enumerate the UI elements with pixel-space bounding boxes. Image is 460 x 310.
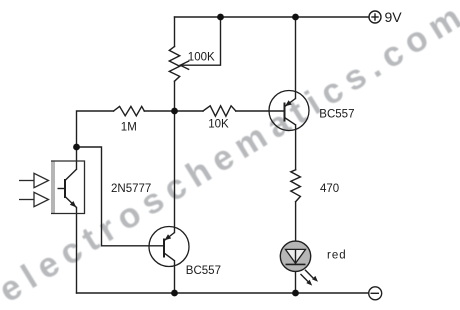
phototransistor emitter arrowhead — [70, 201, 77, 207]
terminal +9V — [369, 11, 381, 23]
wire 10K to Q2 base — [236, 110, 285, 112]
svg-text:1M: 1M — [121, 122, 137, 134]
resistor R2 1M body — [114, 106, 145, 115]
wire 1M to node — [144, 110, 203, 112]
Q1 emitter arrowhead — [165, 234, 172, 240]
LED emission arrow 2 — [305, 270, 318, 282]
wire 470 to LED — [295, 202, 297, 249]
junction node top wiper — [217, 14, 224, 21]
svg-text:BC557: BC557 — [319, 108, 354, 120]
light arrow 2 — [19, 192, 49, 206]
wire Q1 collector to rail — [174, 261, 176, 293]
LED D1 lead through — [295, 249, 297, 264]
wire Q2 emitter top — [295, 17, 297, 99]
transistor Q1 body — [164, 233, 175, 261]
potentiometer R1 100K body — [169, 47, 179, 82]
wire phototransistor collector — [76, 147, 78, 169]
wire 100K top lead — [174, 17, 176, 47]
junction node top Q2 — [292, 14, 299, 21]
phototransistor Q3 2N5777 symbol — [58, 169, 77, 207]
wire 100K bottom lead — [174, 81, 176, 111]
transistor Q2 body — [285, 99, 296, 125]
junction node bottom LED — [292, 290, 299, 297]
wire left node to Q1 base — [77, 147, 164, 246]
terminal minus — [369, 287, 382, 300]
LED emission arrow 1 — [301, 274, 313, 286]
junction node left — [73, 144, 80, 151]
svg-text:electroschematics.com: electroschematics.com — [0, 0, 460, 310]
wire 100K wiper — [182, 17, 221, 65]
light arrow 1 — [19, 173, 49, 187]
wire phototransistor emitter down — [76, 208, 78, 294]
optocoupler box outline — [51, 161, 85, 214]
optocoupler box gray left edge — [51, 161, 55, 214]
transistor Q1 BC557 circle — [149, 227, 189, 267]
Q2 emitter arrowhead — [285, 100, 292, 106]
LED D1 circle — [280, 241, 310, 271]
wire Q1 emitter top (from node) — [174, 111, 176, 233]
junction node bottom Q1 — [171, 290, 178, 297]
junction node middle — [171, 108, 178, 115]
svg-text:470: 470 — [320, 183, 339, 195]
LED D1 cathode bar — [286, 263, 306, 265]
wire bottom rail — [77, 292, 369, 294]
svg-text:9V: 9V — [385, 9, 403, 25]
resistor R3 10K body — [203, 106, 236, 116]
resistor R4 470 body — [291, 170, 301, 202]
svg-text:red: red — [327, 250, 347, 262]
wire Q2 collector to 470 — [295, 125, 297, 170]
wire LED cathode to rail — [295, 264, 297, 293]
wire middle left — [77, 111, 114, 147]
LED D1 triangle — [286, 249, 306, 263]
svg-text:10K: 10K — [208, 119, 229, 131]
wire top rail — [175, 16, 370, 18]
svg-text:100K: 100K — [188, 52, 215, 64]
wiper arrowhead — [180, 61, 188, 69]
transistor Q2 BC557 circle — [269, 91, 309, 131]
svg-text:2N5777: 2N5777 — [111, 183, 151, 195]
svg-text:BC557: BC557 — [186, 265, 221, 277]
